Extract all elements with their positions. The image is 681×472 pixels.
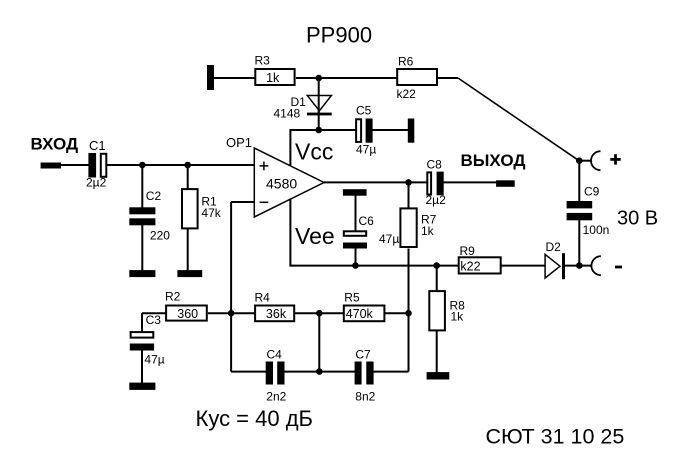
svg-text:4580: 4580: [266, 176, 297, 192]
svg-text:C3: C3: [146, 313, 162, 327]
svg-text:OP1: OP1: [226, 135, 252, 150]
svg-text:2n2: 2n2: [266, 390, 286, 404]
svg-text:1k: 1k: [266, 71, 280, 85]
svg-text:СЮТ 31 10 25: СЮТ 31 10 25: [486, 425, 625, 449]
svg-text:30 В: 30 В: [617, 207, 658, 229]
svg-text:R4: R4: [255, 290, 271, 304]
svg-text:R6: R6: [398, 55, 414, 69]
svg-text:C6: C6: [359, 214, 375, 228]
svg-text:ВЫХОД: ВЫХОД: [461, 151, 526, 170]
svg-text:8n2: 8n2: [355, 390, 375, 404]
svg-text:47µ: 47µ: [379, 232, 399, 246]
svg-text:47µ: 47µ: [144, 352, 164, 366]
svg-text:470k: 470k: [346, 307, 374, 321]
svg-text:2µ2: 2µ2: [426, 193, 447, 207]
svg-text:47µ: 47µ: [356, 143, 376, 157]
svg-text:2µ2: 2µ2: [86, 176, 107, 190]
svg-text:PP900: PP900: [306, 23, 372, 48]
svg-text:4148: 4148: [274, 107, 301, 121]
svg-text:C1: C1: [89, 138, 106, 153]
svg-text:1k: 1k: [451, 310, 465, 324]
svg-text:D2: D2: [546, 240, 562, 254]
svg-text:R3: R3: [255, 54, 271, 68]
svg-text:R2: R2: [165, 290, 181, 304]
svg-text:100n: 100n: [583, 223, 610, 237]
svg-text:k22: k22: [460, 260, 480, 274]
svg-text:220: 220: [150, 229, 170, 243]
svg-text:k22: k22: [397, 87, 417, 101]
svg-text:R5: R5: [344, 290, 360, 304]
svg-text:ВХОД: ВХОД: [31, 135, 79, 154]
svg-text:360: 360: [177, 307, 198, 321]
svg-text:C5: C5: [356, 104, 372, 118]
svg-text:Кус = 40 дБ: Кус = 40 дБ: [196, 406, 314, 431]
svg-text:36k: 36k: [266, 307, 287, 321]
svg-text:C7: C7: [355, 348, 371, 362]
svg-text:1k: 1k: [421, 224, 435, 238]
svg-text:C4: C4: [267, 348, 283, 362]
svg-text:C9: C9: [584, 185, 600, 199]
svg-text:C8: C8: [427, 158, 443, 172]
svg-text:R9: R9: [460, 244, 476, 258]
svg-text:47k: 47k: [201, 206, 221, 220]
svg-text:Vcc: Vcc: [295, 139, 333, 165]
svg-text:C2: C2: [146, 189, 162, 203]
svg-text:Vee: Vee: [295, 223, 335, 249]
